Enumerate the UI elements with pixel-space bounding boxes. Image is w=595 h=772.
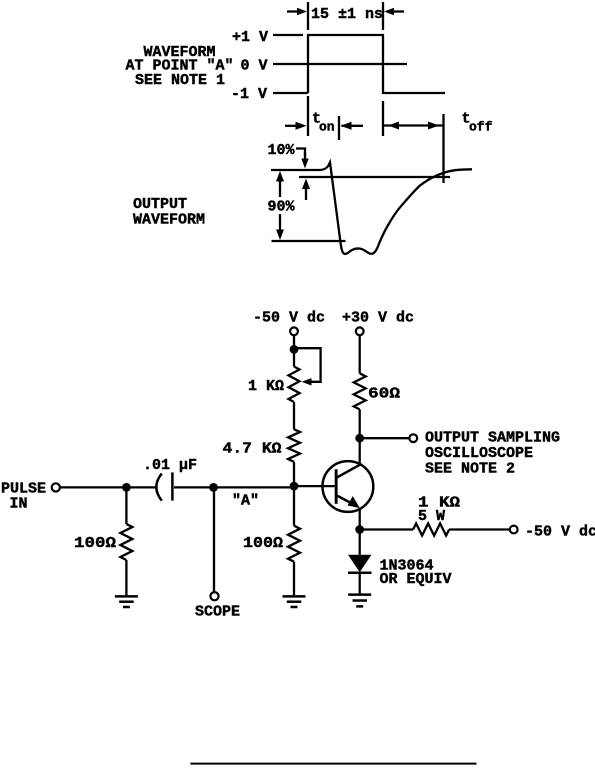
svg-text:SCOPE: SCOPE: [195, 604, 240, 621]
svg-text:IN: IN: [10, 496, 28, 513]
svg-text:OUTPUT SAMPLING: OUTPUT SAMPLING: [425, 430, 560, 447]
svg-text:15 ±1 ns: 15 ±1 ns: [311, 6, 383, 23]
svg-text:0 V: 0 V: [241, 58, 268, 75]
svg-text:-50 V dc: -50 V dc: [525, 524, 595, 541]
svg-text:4.7 KΩ: 4.7 KΩ: [223, 441, 282, 458]
svg-text:100Ω: 100Ω: [243, 535, 283, 552]
svg-text:"A": "A": [232, 493, 259, 510]
svg-text:OR EQUIV: OR EQUIV: [380, 571, 452, 588]
svg-text:SEE NOTE 2: SEE NOTE 2: [425, 461, 515, 478]
svg-text:60Ω: 60Ω: [368, 386, 400, 403]
svg-text:-50 V dc: -50 V dc: [253, 310, 325, 327]
svg-text:10%: 10%: [268, 142, 296, 159]
svg-text:+30 V dc: +30 V dc: [342, 310, 414, 327]
svg-text:5 W: 5 W: [418, 508, 445, 525]
svg-text:100Ω: 100Ω: [74, 535, 116, 552]
svg-text:WAVEFORM: WAVEFORM: [133, 212, 205, 229]
svg-text:.01 µF: .01 µF: [143, 457, 197, 474]
svg-text:OSCILLOSCOPE: OSCILLOSCOPE: [425, 445, 533, 462]
svg-text:+1 V: +1 V: [232, 29, 268, 46]
svg-text:on: on: [319, 120, 335, 135]
svg-text:90%: 90%: [268, 199, 296, 216]
svg-text:OUTPUT: OUTPUT: [133, 196, 187, 213]
svg-text:SEE NOTE 1: SEE NOTE 1: [135, 72, 225, 89]
svg-text:off: off: [469, 120, 493, 135]
svg-text:1 KΩ: 1 KΩ: [248, 378, 284, 395]
svg-text:-1 V: -1 V: [231, 86, 267, 103]
